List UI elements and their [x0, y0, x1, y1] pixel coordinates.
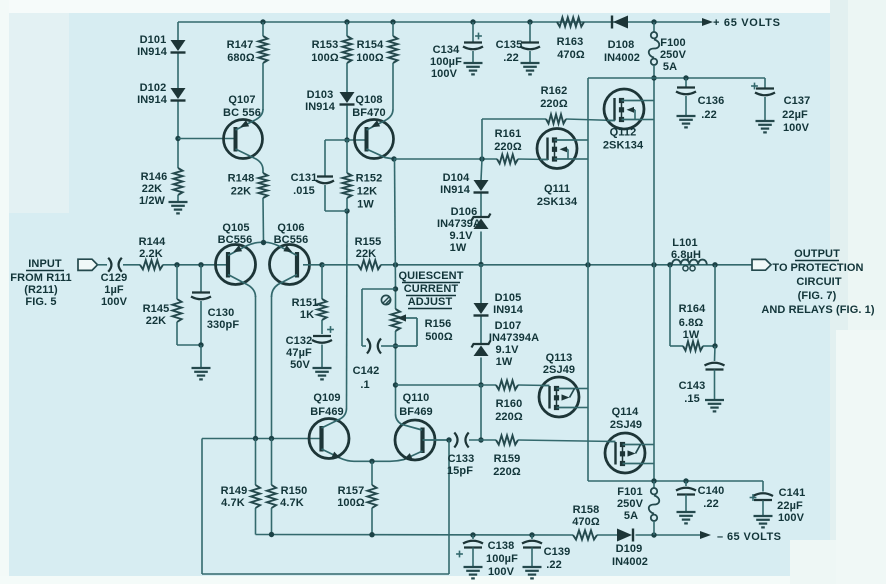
input connector — [78, 259, 98, 270]
value R160 — [495, 411, 523, 423]
resistor R151 — [317, 265, 326, 334]
underline CURRENT — [406, 295, 456, 297]
svg-text:(R211): (R211) — [24, 284, 58, 296]
node C130 junction — [198, 262, 203, 267]
ground C132 — [313, 368, 332, 379]
node bias chain top — [479, 156, 484, 161]
wire Q109 base row — [202, 438, 320, 440]
value D107a — [489, 332, 539, 344]
MOSFET Q113 — [539, 377, 579, 417]
svg-text:220Ω: 220Ω — [493, 466, 521, 478]
value C132a — [286, 347, 312, 359]
value R144 — [139, 248, 163, 260]
label R153 — [312, 39, 339, 51]
ground C139 — [523, 567, 542, 578]
svg-text:OUTPUT: OUTPUT — [794, 248, 840, 260]
svg-text:Q106: Q106 — [277, 222, 304, 234]
ground C141 — [754, 516, 773, 527]
value Q105 — [218, 234, 253, 246]
diode D108 — [612, 16, 628, 29]
svg-text:D103: D103 — [307, 89, 334, 101]
wire feedback loop — [202, 439, 449, 575]
zener D106 — [472, 214, 491, 230]
svg-text:R161: R161 — [495, 128, 522, 140]
svg-text:R150: R150 — [281, 485, 308, 497]
svg-text:100V: 100V — [431, 68, 458, 80]
svg-text:R156: R156 — [425, 318, 452, 330]
svg-text:.1: .1 — [360, 379, 369, 391]
diode D103 — [340, 92, 355, 105]
svg-text:PROTECTION: PROTECTION — [790, 262, 863, 274]
svg-text:R146: R146 — [141, 171, 168, 183]
value C135 — [503, 52, 519, 64]
wire x654 column — [653, 78, 655, 481]
value L101 — [671, 249, 701, 261]
label R146 — [141, 171, 168, 183]
svg-text:D106: D106 — [451, 206, 478, 218]
value R158 — [572, 516, 600, 528]
value Q108 — [352, 107, 386, 119]
svg-text:R153: R153 — [312, 39, 339, 51]
svg-text:22K: 22K — [142, 183, 162, 195]
wire R154 top — [392, 22, 394, 36]
resistor R152 — [342, 140, 351, 211]
value C131 — [293, 185, 315, 197]
label R163 — [557, 36, 584, 48]
node bus x588 — [585, 262, 590, 267]
svg-text:100µF: 100µF — [486, 553, 518, 565]
node R152 bottom — [344, 208, 349, 213]
wire Q111 drain — [574, 140, 588, 159]
label R159 — [494, 453, 521, 465]
resistor R153 — [342, 36, 351, 63]
value C138b — [488, 566, 515, 578]
value C133 — [447, 465, 473, 477]
svg-text:R149: R149 — [221, 485, 248, 497]
value D107b — [495, 344, 519, 356]
ground C137 — [756, 121, 775, 132]
value D104 — [440, 184, 471, 196]
capacitor C138 — [456, 535, 483, 566]
label Q110 — [403, 392, 430, 404]
value D107c — [496, 356, 513, 368]
svg-text:CURRENT: CURRENT — [404, 283, 459, 295]
resistor R146 — [173, 168, 182, 195]
wire D101-D102 chain — [177, 22, 179, 168]
svg-text:47µF: 47µF — [286, 347, 312, 359]
label Q111 — [544, 183, 570, 195]
value D105 — [493, 304, 524, 316]
ground R146 — [169, 202, 188, 213]
ground C140 — [677, 512, 696, 523]
svg-text:– 65 VOLTS: – 65 VOLTS — [717, 531, 781, 543]
underline INPUT — [26, 270, 64, 272]
node Q109-Q110 emitter — [369, 459, 374, 464]
fuse F100 — [649, 22, 660, 78]
node Q107 base junction — [175, 136, 180, 141]
svg-text:R158: R158 — [573, 504, 600, 516]
svg-text:C132: C132 — [286, 335, 313, 347]
value Q109 — [310, 406, 344, 418]
value R149 — [221, 497, 245, 509]
node Q106 base junction — [319, 262, 324, 267]
svg-text:22µF: 22µF — [777, 500, 803, 512]
ground C143 — [705, 400, 724, 411]
svg-text:100Ω: 100Ω — [356, 52, 384, 64]
label (FIG. 7) — [798, 290, 837, 302]
svg-text:C133: C133 — [448, 453, 475, 465]
wire R153 to D103 — [346, 63, 348, 92]
svg-text:6.8Ω: 6.8Ω — [679, 317, 704, 329]
label Q109 — [313, 392, 340, 404]
label R161 — [495, 128, 522, 140]
svg-text:.22: .22 — [546, 559, 562, 571]
wire input to C129 — [98, 264, 108, 266]
svg-text:R145: R145 — [143, 303, 170, 315]
svg-text:.22: .22 — [701, 109, 717, 121]
wire x588 column — [587, 78, 589, 481]
label R156 — [425, 318, 452, 330]
resistor R160 — [496, 380, 518, 389]
resistor R161 — [497, 154, 518, 163]
diode D102 — [171, 88, 186, 101]
value R161 — [494, 141, 522, 153]
svg-text:250V: 250V — [660, 49, 687, 61]
node C133 junction — [446, 437, 451, 442]
svg-text:D107: D107 — [495, 320, 522, 332]
svg-text:BF470: BF470 — [352, 107, 386, 119]
arrow +65 volts — [702, 18, 713, 26]
value C130 — [207, 319, 239, 331]
capacitor C131 loop — [316, 140, 347, 211]
svg-text:Q113: Q113 — [546, 352, 573, 364]
resistor R157 — [367, 461, 376, 534]
node Q110 base junction — [393, 382, 398, 387]
svg-text:2SJ49: 2SJ49 — [543, 364, 575, 376]
node bus x654 — [651, 262, 656, 267]
capacitor C140 — [676, 481, 696, 511]
svg-text:D101: D101 — [140, 34, 167, 46]
wire R153 top — [346, 22, 348, 36]
diode D101 — [171, 40, 186, 53]
wire R147 to Q107 emitter — [262, 63, 264, 110]
label C139 — [544, 546, 571, 558]
value Q112 — [603, 140, 644, 152]
capacitor C143 — [705, 346, 725, 399]
label F101 — [617, 486, 642, 498]
svg-text:L101: L101 — [672, 237, 697, 249]
label R150 — [281, 485, 308, 497]
label D102 — [140, 82, 167, 94]
node drain bus C136 — [683, 75, 688, 80]
svg-text:C135: C135 — [496, 39, 523, 51]
value R146b — [139, 195, 166, 207]
label FIG. 5 — [25, 296, 56, 308]
value F100b — [663, 61, 677, 73]
node Q109 base R149 — [253, 436, 258, 441]
svg-text:50V: 50V — [290, 359, 310, 371]
node R145 junction — [174, 262, 179, 267]
node rail R150 — [269, 532, 274, 537]
label C138 — [488, 540, 515, 552]
value R146a — [142, 183, 162, 195]
wire Q114 taps — [642, 445, 654, 464]
value Q107 — [223, 107, 261, 119]
ground C138 — [464, 567, 483, 578]
svg-text:C142: C142 — [353, 365, 380, 377]
underline QUIESCENT — [402, 282, 460, 284]
node C130 ground junction — [198, 342, 203, 347]
value C137a — [782, 109, 808, 121]
svg-text:C136: C136 — [698, 95, 725, 107]
svg-text:220Ω: 220Ω — [540, 98, 568, 110]
label C135 — [496, 39, 523, 51]
transistor Q110 — [372, 414, 447, 461]
label Q114 — [612, 406, 639, 418]
label R160 — [496, 398, 523, 410]
wire -65V rail — [256, 534, 701, 537]
svg-text:IN914: IN914 — [137, 94, 168, 106]
wire output bus — [396, 264, 752, 266]
label FROM R111 — [10, 272, 71, 284]
svg-text:4.7K: 4.7K — [280, 497, 304, 509]
svg-text:BC 556: BC 556 — [223, 107, 261, 119]
zener D107 — [472, 341, 491, 357]
label QUIESCENT — [398, 270, 463, 282]
value D109 — [612, 556, 648, 568]
value D108 — [604, 52, 640, 64]
capacitor C134 — [463, 22, 483, 62]
label C134 — [433, 44, 460, 56]
resistor R149 — [251, 439, 260, 535]
svg-text:R160: R160 — [496, 398, 523, 410]
svg-text:Q114: Q114 — [612, 406, 639, 418]
svg-text:2SK134: 2SK134 — [537, 196, 578, 208]
svg-text:2.2K: 2.2K — [139, 248, 163, 260]
svg-text:INPUT: INPUT — [28, 258, 62, 270]
value R156 — [425, 331, 453, 343]
transistor Q109 — [309, 408, 372, 461]
svg-text:1/2W: 1/2W — [139, 195, 166, 207]
svg-text:R148: R148 — [228, 173, 255, 185]
value R152b — [357, 199, 374, 211]
value R152a — [357, 186, 377, 198]
transistor Q108 — [355, 109, 395, 159]
label TO — [772, 262, 788, 274]
value C139 — [546, 559, 562, 571]
value C134a — [430, 56, 462, 68]
svg-text:R164: R164 — [679, 303, 706, 315]
value R154 — [356, 52, 384, 64]
resistor R148 — [258, 173, 267, 198]
svg-text:Q111: Q111 — [544, 183, 570, 195]
value R155 — [356, 248, 376, 260]
svg-text:BC556: BC556 — [274, 234, 309, 246]
wire C133 to R159 — [469, 439, 496, 441]
svg-text:1W: 1W — [450, 242, 467, 254]
value R148 — [231, 186, 251, 198]
svg-text:R155: R155 — [355, 236, 382, 248]
label R144 — [139, 236, 166, 248]
svg-text:.15: .15 — [684, 393, 700, 405]
capacitor C141 — [750, 481, 773, 515]
svg-text:250V: 250V — [617, 498, 644, 510]
svg-text:C130: C130 — [208, 307, 235, 319]
output connector — [752, 259, 771, 270]
svg-text:100Ω: 100Ω — [311, 52, 339, 64]
value C129a — [104, 284, 124, 296]
svg-text:F101: F101 — [617, 486, 642, 498]
label C136 — [698, 95, 725, 107]
capacitor C129 — [108, 258, 122, 272]
wire R162 row to Q112 gate — [482, 119, 615, 121]
wire R155 link — [322, 264, 358, 266]
value R163 — [557, 49, 585, 61]
node rail C138 — [470, 532, 475, 537]
wire Q105 collector drop — [255, 296, 257, 440]
svg-text:C139: C139 — [544, 546, 571, 558]
wire lower bias to C133 row — [480, 385, 482, 440]
svg-text:680Ω: 680Ω — [227, 52, 255, 64]
label Q113 — [546, 352, 573, 364]
svg-text:R147: R147 — [227, 39, 254, 51]
resistor R159 — [496, 435, 518, 444]
wire Q106 base — [303, 264, 322, 266]
label C141 — [779, 487, 806, 499]
svg-text:R151: R151 — [292, 297, 319, 309]
node pot bottom — [393, 343, 398, 348]
svg-text:15pF: 15pF — [447, 465, 473, 477]
node rail R157 — [369, 532, 374, 537]
underline ADJUST — [408, 308, 452, 310]
value R162 — [540, 98, 568, 110]
svg-text:2SJ49: 2SJ49 — [610, 419, 642, 431]
label Q108 — [355, 94, 382, 106]
capacitor C132 — [312, 326, 334, 367]
svg-text:470Ω: 470Ω — [557, 49, 585, 61]
node Q109 base R150 — [269, 436, 274, 441]
value Q111 — [537, 196, 578, 208]
value C143 — [684, 393, 700, 405]
arrow -65 volts — [700, 531, 711, 539]
value C134b — [431, 68, 458, 80]
label R164 — [679, 303, 706, 315]
svg-text:C140: C140 — [698, 485, 725, 497]
transistor Q105 — [216, 242, 264, 297]
label Q105 — [222, 222, 249, 234]
label Q106 — [277, 222, 304, 234]
label R148 — [228, 173, 255, 185]
node diff pair emitter — [261, 240, 266, 245]
transistor Q106 — [264, 242, 310, 297]
label PROTECTION — [790, 262, 863, 274]
svg-text:1W: 1W — [683, 329, 700, 341]
value R150 — [280, 497, 304, 509]
resistor R158 — [573, 530, 597, 539]
svg-text:22K: 22K — [146, 315, 166, 327]
value C140 — [703, 498, 719, 510]
svg-text:IN47394A: IN47394A — [489, 332, 539, 344]
svg-text:FIG. 5: FIG. 5 — [25, 296, 56, 308]
value D102 — [137, 94, 168, 106]
svg-text:1µF: 1µF — [104, 284, 124, 296]
wire R161 to Q111 gate — [518, 158, 548, 161]
transistor Q107 — [224, 109, 264, 173]
label R145 — [143, 303, 170, 315]
svg-text:12K: 12K — [357, 186, 377, 198]
value R159 — [493, 466, 521, 478]
svg-text:C129: C129 — [101, 272, 128, 284]
wire bias chain D105-D107 — [480, 265, 482, 386]
screw adjust symbol — [381, 295, 391, 304]
node Q108 base junction — [344, 137, 349, 142]
svg-text:F100: F100 — [660, 37, 685, 49]
label R152 — [356, 173, 383, 185]
wire Q112 drain — [641, 101, 654, 120]
wire Q113 taps — [576, 389, 588, 408]
svg-text:IN914: IN914 — [305, 101, 336, 113]
svg-text:R152: R152 — [356, 173, 383, 185]
wire Q107 base — [178, 138, 234, 140]
wire D103 to Q108 base — [346, 106, 348, 141]
label F100 — [660, 37, 685, 49]
svg-text:R159: R159 — [494, 453, 521, 465]
capacitor C130 — [191, 265, 211, 345]
svg-text:D104: D104 — [443, 172, 470, 184]
svg-text:100µF: 100µF — [430, 56, 462, 68]
svg-text:100Ω: 100Ω — [337, 497, 365, 509]
svg-text:2SK134: 2SK134 — [603, 140, 644, 152]
underline OUTPUT — [795, 260, 839, 262]
potentiometer R156 — [391, 309, 417, 346]
svg-text:IN914: IN914 — [440, 184, 471, 196]
label D107 — [495, 320, 522, 332]
svg-text:Q105: Q105 — [222, 222, 249, 234]
label R149 — [221, 485, 248, 497]
svg-text:220Ω: 220Ω — [495, 411, 523, 423]
svg-text:BF469: BF469 — [399, 406, 433, 418]
svg-text:1W: 1W — [496, 356, 513, 368]
svg-text:ADJUST: ADJUST — [408, 296, 453, 308]
wire R146 to ground — [177, 195, 179, 201]
label OUTPUT — [794, 248, 840, 260]
value C138a — [486, 553, 518, 565]
label C142 — [353, 365, 380, 377]
svg-text:Q107: Q107 — [228, 94, 255, 106]
label R147 — [227, 39, 254, 51]
value Q106 — [274, 234, 309, 246]
wire R159 to Q114 gate — [518, 440, 615, 442]
svg-text:Q108: Q108 — [355, 94, 382, 106]
svg-text:9.1V: 9.1V — [449, 230, 473, 242]
capacitor C142 loop — [362, 289, 396, 354]
value R164a — [679, 317, 704, 329]
value Q113 — [543, 364, 575, 376]
svg-text:330pF: 330pF — [207, 319, 239, 331]
svg-text:IN4739A: IN4739A — [437, 218, 481, 230]
svg-text:.015: .015 — [293, 185, 315, 197]
svg-text:1W: 1W — [357, 199, 374, 211]
node joints on top rail — [260, 19, 656, 24]
svg-text:IN4002: IN4002 — [612, 556, 648, 568]
resistor R144 — [140, 260, 163, 269]
svg-text:6.8µH: 6.8µH — [671, 249, 701, 261]
svg-text:4.7K: 4.7K — [221, 497, 245, 509]
value R157 — [337, 497, 365, 509]
node rail F101 — [651, 532, 656, 537]
value Q114 — [610, 419, 642, 431]
label D105 — [495, 292, 522, 304]
